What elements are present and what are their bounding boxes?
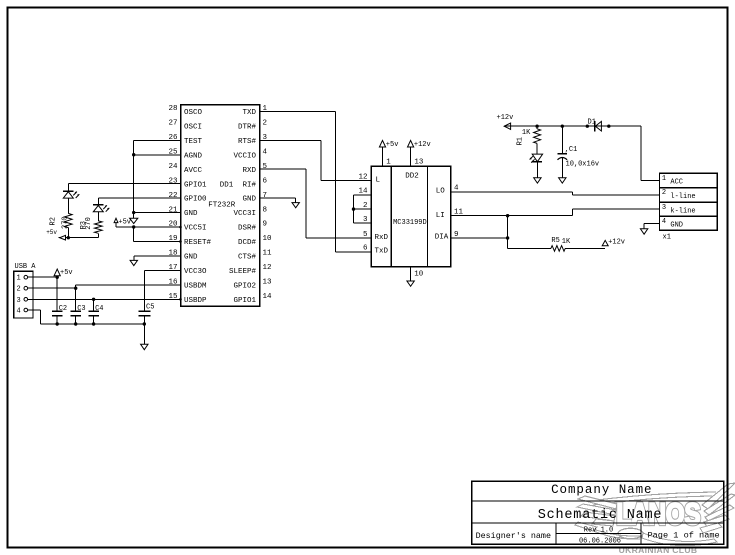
svg-text:3: 3 — [662, 204, 666, 212]
svg-text:8: 8 — [263, 206, 268, 214]
node junction D1a — [586, 125, 589, 128]
svg-text:FT232R: FT232R — [208, 201, 236, 209]
svg-text:VCC3O: VCC3O — [184, 268, 207, 276]
svg-text:+12v: +12v — [497, 114, 514, 122]
svg-text:AVCC: AVCC — [184, 167, 203, 175]
resistor R1 — [517, 126, 541, 145]
svg-text:C4: C4 — [95, 305, 103, 313]
wire R3 bottom — [97, 233, 99, 237]
svg-text:LO: LO — [436, 188, 446, 196]
wire gnd vertical — [133, 140, 135, 218]
svg-text:Page 1 of name: Page 1 of name — [647, 531, 719, 541]
wire TXD pin1 — [260, 111, 372, 252]
capacitor C5 — [138, 304, 154, 345]
svg-text:TxD: TxD — [375, 248, 389, 256]
LED HL2 (RX indicator) — [93, 205, 109, 212]
capacitor C4 — [88, 305, 103, 326]
wire R2 to +5v — [67, 228, 69, 238]
wire DIA — [451, 237, 508, 239]
wire DD2 pin10 gnd — [410, 267, 412, 281]
wire RXD pin5 — [260, 169, 372, 238]
wire GPIO1 pin23 to LED — [68, 184, 180, 192]
svg-text:11: 11 — [263, 250, 273, 258]
svg-text:GPIO2: GPIO2 — [233, 282, 256, 290]
wire USBDM pin16 — [76, 284, 181, 286]
svg-text:28: 28 — [168, 105, 177, 113]
svg-text:RTS#: RTS# — [238, 138, 257, 146]
svg-text:9: 9 — [263, 221, 268, 229]
ground below C5 — [141, 344, 148, 349]
svg-text:USB A: USB A — [15, 263, 37, 271]
wire +12v rail — [504, 125, 641, 127]
svg-text:10: 10 — [263, 235, 273, 243]
svg-text:+5v: +5v — [386, 141, 399, 149]
wire DD2 pin13 +12v — [410, 147, 412, 166]
svg-text:DTR#: DTR# — [238, 123, 257, 131]
svg-text:1: 1 — [17, 275, 21, 283]
svg-text:1K: 1K — [522, 129, 531, 137]
wire GND pin18 — [134, 255, 181, 257]
svg-text:14: 14 — [263, 293, 273, 301]
svg-text:C3: C3 — [77, 305, 85, 313]
svg-text:GND: GND — [184, 210, 198, 218]
wire R1 to LED — [536, 143, 538, 154]
svg-text:+5v: +5v — [60, 269, 73, 277]
svg-text:4: 4 — [662, 218, 666, 226]
wire RTS pin3 — [260, 140, 372, 180]
wire LI-DIA vertical — [508, 216, 551, 249]
svg-text:5: 5 — [363, 231, 368, 239]
svg-text:C2: C2 — [59, 305, 67, 313]
connector X1 — [659, 173, 717, 241]
svg-text:TEST: TEST — [184, 138, 203, 146]
wire DD2 pin3 stub — [354, 222, 372, 224]
node junction R2 bottom — [67, 236, 70, 239]
capacitor C1 — [558, 126, 600, 178]
power +12v arrow left — [497, 114, 514, 129]
resistor R2 — [50, 213, 73, 229]
svg-text:l-line: l-line — [670, 193, 695, 201]
svg-text:+12v: +12v — [608, 239, 625, 247]
wire USB pin1 +5v — [28, 276, 58, 278]
svg-text:AGND: AGND — [184, 152, 203, 160]
svg-text:USBDP: USBDP — [184, 297, 207, 305]
svg-text:GPIO1: GPIO1 — [233, 297, 256, 305]
node junction usb+5 — [56, 276, 59, 279]
svg-text:DCD#: DCD# — [238, 239, 257, 247]
wire DD2 pin2 stub — [354, 208, 372, 210]
svg-text:2: 2 — [662, 189, 666, 197]
diode D1 — [588, 118, 602, 131]
svg-text:C5: C5 — [146, 304, 154, 312]
svg-text:270: 270 — [85, 217, 93, 230]
node junction C1 — [561, 125, 564, 128]
power +5v arrow left — [46, 229, 65, 240]
wire DD2 pin14 loop — [354, 195, 372, 223]
power +5v arrow DD2 — [379, 140, 398, 149]
svg-text:6: 6 — [363, 245, 368, 253]
svg-text:RXD: RXD — [242, 167, 256, 175]
svg-text:1: 1 — [662, 175, 666, 183]
svg-text:+12v: +12v — [414, 141, 431, 149]
svg-text:+5v: +5v — [118, 219, 131, 227]
node junction LI — [506, 214, 509, 217]
svg-text:,C1: ,C1 — [565, 146, 578, 154]
svg-text:ACC: ACC — [670, 179, 683, 187]
svg-text:+5v: +5v — [46, 229, 57, 236]
wire usb2 jog — [75, 285, 77, 288]
svg-text:R1: R1 — [517, 137, 525, 145]
wire USB pin2 — [28, 287, 76, 289]
svg-text:3: 3 — [17, 297, 21, 305]
svg-text:UKRAINIAN CLUB: UKRAINIAN CLUB — [619, 545, 698, 555]
svg-text:GPIO0: GPIO0 — [184, 196, 207, 204]
svg-text:OSCO: OSCO — [184, 109, 203, 117]
svg-text:USBDM: USBDM — [184, 282, 207, 290]
svg-text:DIA: DIA — [435, 234, 449, 242]
svg-text:RI#: RI# — [242, 181, 256, 189]
resistor R3 — [80, 217, 102, 233]
svg-text:RxD: RxD — [375, 234, 389, 242]
node pin19 connect — [179, 240, 182, 243]
svg-text:270: 270 — [62, 216, 70, 229]
wire GND pin21 — [134, 212, 181, 214]
wire X1 GND — [644, 222, 659, 224]
ground for TEST/AGND/GND — [130, 218, 138, 223]
wire VCC5I pin20 — [116, 226, 181, 228]
svg-text:27: 27 — [168, 120, 177, 128]
wire LED2 to R3 — [97, 212, 99, 221]
svg-text:R5: R5 — [551, 237, 559, 245]
wire TEST pin26 — [134, 139, 181, 141]
node junction +5v — [132, 225, 135, 228]
svg-text:12: 12 — [263, 264, 272, 272]
power +12v arrow DD2 — [408, 140, 431, 149]
node junction D1b — [607, 125, 610, 128]
wire R5 to +12v — [565, 247, 605, 249]
node pin20 connect — [179, 226, 182, 229]
svg-text:L: L — [376, 177, 381, 185]
power +5v arrow at VCC5I — [114, 218, 131, 227]
svg-text:1K: 1K — [562, 238, 571, 246]
wire AGND pin25 — [134, 154, 181, 156]
svg-text:10: 10 — [414, 270, 424, 278]
svg-text:2: 2 — [263, 120, 268, 128]
wire LED to R2 — [67, 198, 69, 213]
node pin15 connect — [179, 298, 182, 301]
svg-text:13: 13 — [263, 279, 273, 287]
svg-text:6: 6 — [263, 177, 268, 185]
title block — [472, 481, 724, 545]
svg-text:CTS#: CTS# — [238, 254, 257, 262]
svg-text:k-line: k-line — [670, 208, 695, 216]
wire +5v bottom — [58, 237, 98, 239]
svg-text:10,0x16v: 10,0x16v — [566, 160, 600, 168]
svg-text:06.06.2006: 06.06.2006 — [579, 537, 621, 545]
svg-text:VCCIO: VCCIO — [233, 152, 256, 160]
wire GND pin7 — [260, 197, 296, 199]
svg-text:Company Name: Company Name — [551, 483, 652, 497]
watermark logo — [575, 483, 735, 555]
node junction GND21 — [132, 211, 135, 214]
wire LI to K-line — [451, 209, 660, 216]
ground DD2 pin10 — [407, 281, 414, 286]
svg-text:x1: x1 — [663, 234, 671, 242]
wire ACC feed — [641, 126, 659, 180]
LED HL3 (power indicator) — [530, 154, 543, 163]
wire VCC3O down to C5 — [143, 270, 145, 311]
svg-text:RESET#: RESET# — [184, 239, 212, 247]
svg-text:OSCI: OSCI — [184, 123, 202, 131]
wire C4 up — [93, 299, 95, 311]
power +5v arrow USB — [54, 269, 73, 277]
power +12v arrow R5 — [602, 239, 625, 247]
connector USB A — [14, 263, 37, 318]
svg-text:GPIO1: GPIO1 — [184, 181, 207, 189]
svg-text:GND: GND — [670, 222, 683, 230]
svg-text:DD2: DD2 — [405, 172, 419, 180]
node junction R1 — [535, 125, 538, 128]
svg-text:SLEEP#: SLEEP# — [229, 268, 257, 276]
node junction usb3 C4 — [92, 298, 95, 301]
svg-text:GND: GND — [242, 196, 256, 204]
ground below LED D2 — [534, 178, 541, 183]
node junction pin2 loop — [352, 207, 355, 210]
resistor R5 — [551, 237, 571, 251]
svg-text:GND: GND — [184, 254, 198, 262]
svg-text:4: 4 — [263, 148, 268, 156]
svg-text:12: 12 — [358, 174, 367, 182]
node junction DIA — [506, 236, 509, 239]
svg-text:1: 1 — [386, 159, 391, 167]
capacitor C2 — [52, 305, 67, 326]
IC DD1 FT232R — [168, 105, 272, 307]
wire +5v to RESET — [134, 227, 181, 241]
wire USB pin4 — [28, 310, 145, 324]
ground below C1 — [559, 178, 566, 183]
capacitor C3 — [71, 305, 86, 326]
svg-text:Schematic Name: Schematic Name — [538, 508, 663, 523]
svg-text:Designer's name: Designer's name — [476, 531, 551, 541]
wire LO to L-line — [451, 192, 660, 195]
wire DD2 pin1 +5v — [382, 147, 384, 166]
svg-text:LI: LI — [436, 212, 445, 220]
svg-text:4: 4 — [17, 308, 21, 316]
ground at pin7 — [292, 198, 299, 208]
node junction AGND — [132, 153, 135, 156]
svg-text:23: 23 — [168, 177, 178, 185]
svg-text:2: 2 — [17, 286, 21, 294]
ground at pin18 — [130, 256, 137, 266]
wire GPIO0 pin22 to LED — [98, 198, 180, 205]
IC DD2 MC33199D — [358, 159, 463, 279]
svg-text:Rev 1.0: Rev 1.0 — [584, 526, 613, 534]
wire LED to gnd — [536, 162, 538, 178]
svg-text:DSR#: DSR# — [238, 225, 257, 233]
svg-text:TXD: TXD — [242, 109, 256, 117]
svg-text:13: 13 — [414, 159, 424, 167]
LED HL1 (TX indicator) — [63, 191, 79, 198]
node junction usb2 — [74, 287, 77, 290]
svg-text:MC33199D: MC33199D — [393, 219, 427, 227]
svg-text:24: 24 — [168, 163, 178, 171]
svg-text:VCC3I: VCC3I — [233, 210, 256, 218]
wire C3 up — [75, 288, 77, 311]
svg-text:DD1: DD1 — [220, 182, 234, 190]
ground X1 — [640, 223, 647, 234]
wire VCC3O pin17 — [144, 269, 180, 271]
wire USBDP pin15 — [28, 298, 181, 300]
svg-text:VCC5I: VCC5I — [184, 225, 207, 233]
svg-text:R2: R2 — [50, 217, 58, 225]
wire C2 up — [56, 277, 58, 311]
